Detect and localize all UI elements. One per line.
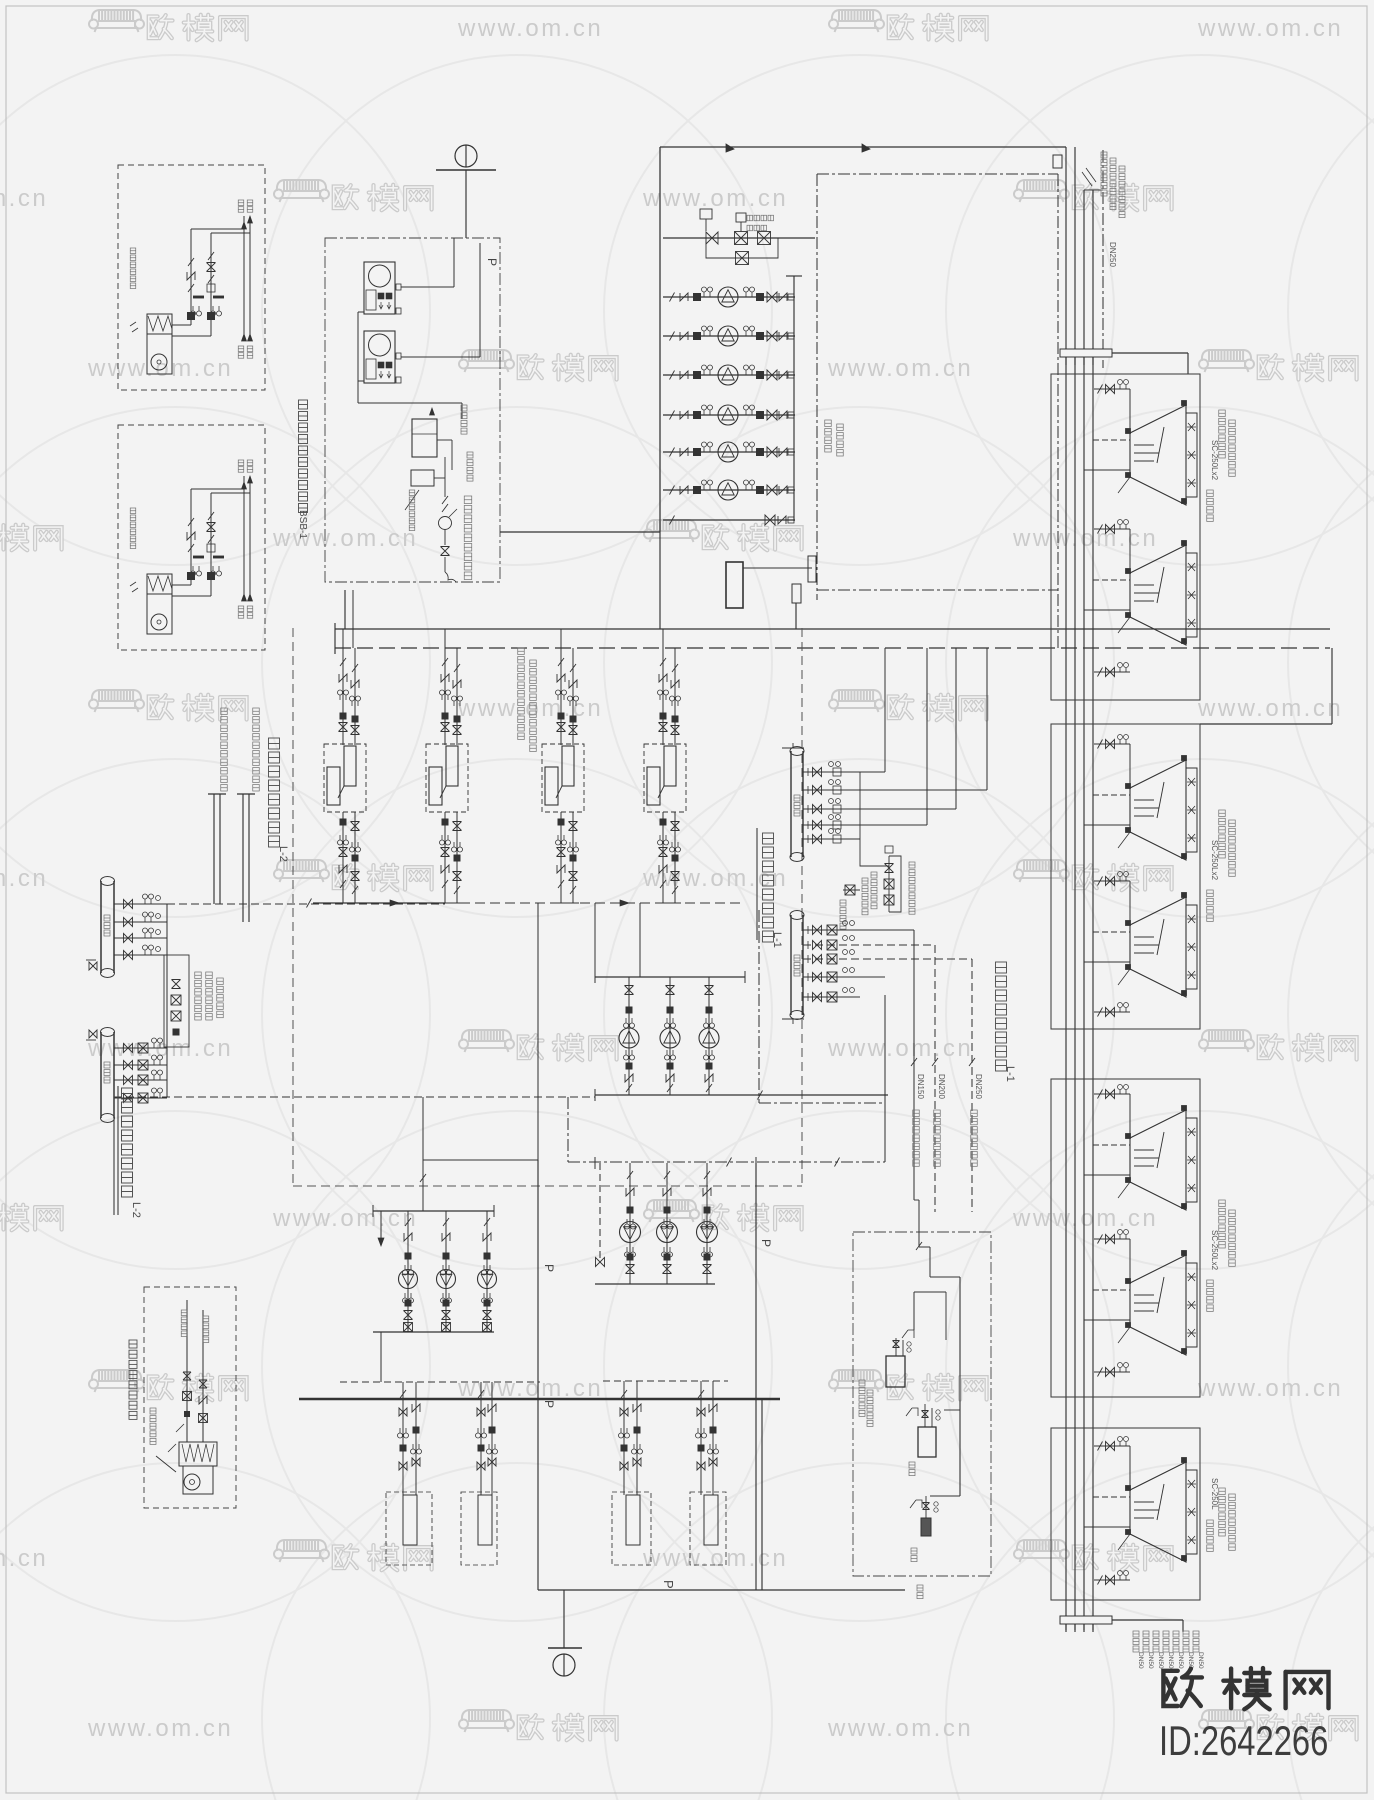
check valve <box>569 680 577 688</box>
label <box>238 606 244 618</box>
boxed valve <box>138 1060 148 1070</box>
riser 4 <box>1092 190 1094 1630</box>
hx lower pipe <box>444 812 446 903</box>
damper <box>130 582 138 592</box>
label <box>221 708 228 791</box>
valve <box>453 726 462 735</box>
cooling tower 2A <box>1130 760 1186 860</box>
svg-text:SC-250L: SC-250L <box>1210 1478 1219 1510</box>
branch <box>803 789 987 791</box>
branch <box>803 838 860 840</box>
riser dashed box <box>461 1492 497 1565</box>
break <box>478 1390 484 1398</box>
branch <box>114 921 167 923</box>
stub <box>1093 1496 1130 1498</box>
branch <box>803 944 935 946</box>
pipe down dashed <box>934 945 936 1212</box>
valve <box>596 1258 605 1267</box>
sensor pair <box>662 1219 673 1229</box>
label <box>1229 820 1236 876</box>
svg-text:P: P <box>759 1239 773 1247</box>
pipe <box>313 902 445 904</box>
sensor pair <box>702 287 713 297</box>
filter <box>710 1427 716 1433</box>
break <box>208 535 214 543</box>
check valve <box>666 1074 674 1082</box>
label <box>1163 1631 1169 1652</box>
makeup tank 2 <box>918 1427 936 1457</box>
check valve <box>709 1404 717 1412</box>
valve <box>569 726 578 735</box>
discharge header <box>595 1283 715 1285</box>
riser <box>243 476 245 600</box>
break <box>1098 740 1103 749</box>
pipe <box>594 903 596 977</box>
sensor pair <box>350 842 361 852</box>
pipe to ground <box>563 1590 565 1648</box>
cooling tower 3A <box>1130 1110 1186 1210</box>
chilled pump <box>699 1028 719 1048</box>
sensor pair <box>452 842 463 852</box>
break <box>484 1218 490 1226</box>
valve <box>626 1265 635 1274</box>
check valve <box>404 1233 412 1241</box>
flow arrow <box>390 900 399 906</box>
filter <box>698 1445 704 1451</box>
sensor pair <box>441 1293 452 1303</box>
pipe <box>190 229 192 325</box>
dash-dot box F <box>853 1232 991 1576</box>
break <box>558 880 564 888</box>
boxed valve <box>827 940 837 950</box>
filter <box>694 412 701 419</box>
valve <box>488 1458 496 1466</box>
sensor pair <box>403 1293 414 1303</box>
label <box>871 872 877 909</box>
flow arrow <box>862 144 870 152</box>
break <box>758 1091 763 1100</box>
label 集水器 <box>794 955 800 976</box>
inner module <box>366 359 376 379</box>
svg-text:www.om.cn: www.om.cn <box>827 1035 973 1062</box>
check valve <box>779 332 787 340</box>
riser 2 <box>1074 147 1076 1630</box>
break <box>969 1058 975 1066</box>
boxed valve <box>827 972 837 982</box>
valve <box>813 941 822 950</box>
sensor pair <box>702 1219 713 1229</box>
fan strip <box>1186 1118 1197 1202</box>
pipe boxC to boxD <box>500 531 660 533</box>
discharge header <box>595 1094 888 1096</box>
collector H2 <box>100 1032 102 1118</box>
valve <box>351 872 360 881</box>
arrow <box>242 222 247 229</box>
sensor pair <box>411 1444 422 1454</box>
discharge header <box>373 1331 494 1333</box>
heat exchanger head <box>344 746 356 786</box>
pipe down <box>700 1381 702 1495</box>
main vertical pipe <box>537 1160 539 1590</box>
label 20X250 <box>518 648 525 740</box>
pipe up <box>884 648 886 772</box>
boxed valve <box>138 1075 148 1085</box>
sensor pair <box>744 480 755 490</box>
label <box>217 978 224 1018</box>
label <box>247 200 253 212</box>
pipe down <box>352 590 354 648</box>
valve <box>813 786 822 795</box>
valve <box>671 872 680 881</box>
box D left edge <box>659 147 661 532</box>
label 自动二通阀 <box>747 215 774 221</box>
break <box>664 1171 670 1179</box>
flex hose <box>445 572 456 582</box>
pipe down <box>636 1381 638 1495</box>
pipe <box>190 489 192 585</box>
pipe down <box>761 1399 763 1590</box>
filter <box>660 819 666 825</box>
dash-dot boundary <box>817 173 1058 175</box>
sensor pair <box>440 835 451 845</box>
label <box>206 972 213 1020</box>
label low zone L-1 right <box>996 962 1007 1071</box>
pipe <box>914 1291 946 1293</box>
pipe <box>663 237 815 239</box>
bypass pipe <box>706 238 778 258</box>
valve <box>620 1462 628 1470</box>
arrow <box>242 482 247 489</box>
filter bar <box>213 556 224 559</box>
label <box>911 1548 917 1562</box>
break <box>1098 1008 1103 1017</box>
valve <box>557 723 566 732</box>
suction header <box>595 976 745 978</box>
valve <box>441 848 450 857</box>
hx dashed box <box>426 744 468 812</box>
check valve <box>680 448 688 456</box>
label <box>1219 1488 1226 1536</box>
sensor pair <box>556 835 567 845</box>
check valve <box>557 674 565 682</box>
break <box>558 658 564 666</box>
pipe <box>210 233 212 336</box>
pump group G-D <box>594 1157 596 1169</box>
sensor pair <box>441 1265 452 1275</box>
pipe <box>929 1247 931 1277</box>
filter <box>757 333 764 340</box>
label <box>530 660 537 752</box>
hx lower pipe <box>560 812 562 903</box>
label 集水器 <box>104 1062 110 1083</box>
valve <box>1106 385 1115 394</box>
pipe <box>401 286 454 288</box>
break <box>1098 1442 1103 1451</box>
filter <box>352 716 358 722</box>
valve <box>441 723 450 732</box>
svg-text:BSB-1: BSB-1 <box>297 510 308 539</box>
label <box>1110 158 1116 210</box>
sensor pair <box>211 566 222 576</box>
valve <box>199 1380 207 1388</box>
check valve <box>703 1188 711 1196</box>
sensor pair <box>658 690 669 700</box>
pipe <box>401 356 480 358</box>
filter <box>352 855 358 861</box>
check valve <box>705 1074 713 1082</box>
svg-text:www.om.cn: www.om.cn <box>87 355 233 382</box>
svg-text:www.om.cn: www.om.cn <box>642 1545 788 1572</box>
valve <box>569 822 578 831</box>
valve <box>453 872 462 881</box>
sensor pair <box>487 1444 498 1454</box>
pipe <box>1094 388 1130 390</box>
break <box>208 252 214 260</box>
stub <box>1084 1319 1130 1321</box>
low zone collector S2 <box>790 915 792 1015</box>
filter <box>386 293 392 299</box>
fan <box>1187 971 1196 979</box>
valve <box>1106 740 1115 749</box>
fan <box>1187 1156 1196 1164</box>
dash-dot pipe vert <box>758 910 760 1103</box>
break <box>188 518 194 526</box>
break <box>1098 668 1103 677</box>
svg-text:DN50: DN50 <box>1167 1652 1174 1669</box>
sensor pair <box>556 690 567 700</box>
tower box 1 <box>1051 374 1200 700</box>
sensor pair <box>632 1444 643 1454</box>
header return dashed <box>335 647 1330 649</box>
label <box>238 346 244 358</box>
damper <box>130 322 138 332</box>
P riser inside <box>479 243 481 357</box>
filter <box>694 449 701 456</box>
stub <box>1093 439 1130 441</box>
cluster below tower 4A <box>1094 1579 1130 1581</box>
valve <box>922 1411 929 1418</box>
filter <box>757 372 764 379</box>
valve <box>183 1372 191 1380</box>
svg-text:DN250: DN250 <box>974 1074 983 1099</box>
break <box>454 886 460 894</box>
pipe <box>423 1159 538 1161</box>
valve <box>893 1341 900 1348</box>
filter <box>208 313 215 320</box>
valve <box>124 1061 133 1070</box>
fan <box>1187 1301 1196 1309</box>
tower box 2 <box>1051 724 1200 1029</box>
high zone riser pair 2 <box>242 794 244 922</box>
branch <box>803 929 914 931</box>
filter <box>667 1007 673 1013</box>
break <box>626 1084 632 1092</box>
dashed return header <box>114 1096 595 1098</box>
sensor pair <box>744 365 755 375</box>
sensor pair <box>452 696 463 706</box>
valve <box>625 986 634 995</box>
label 分水器 <box>104 915 110 936</box>
svg-text:DN50: DN50 <box>1197 1652 1204 1669</box>
label <box>1229 420 1236 476</box>
valve <box>671 726 680 735</box>
secondary pump <box>399 1270 418 1289</box>
filter bar <box>213 296 224 299</box>
filter <box>378 293 384 299</box>
branch <box>114 1079 167 1081</box>
check valve <box>659 865 667 873</box>
pipe down <box>623 1381 625 1495</box>
valve <box>124 918 133 927</box>
stub <box>1093 1144 1130 1146</box>
check valve <box>779 293 787 301</box>
fan <box>1187 619 1196 627</box>
tower box 4 <box>1051 1428 1200 1600</box>
cooling tower 4A <box>1130 1462 1186 1562</box>
dashed boundary right <box>801 628 803 1186</box>
label <box>1153 1631 1159 1652</box>
label <box>203 1316 209 1343</box>
box D edge to header <box>659 532 661 629</box>
break <box>916 1242 922 1250</box>
svg-text:www.om.cn: www.om.cn <box>642 865 788 892</box>
filter <box>188 313 195 320</box>
branch <box>803 824 927 826</box>
small vessel <box>792 584 801 603</box>
check valve <box>778 516 786 524</box>
stub <box>1084 824 1130 826</box>
check valve <box>680 293 688 301</box>
filter <box>757 412 764 419</box>
sensor pair <box>143 928 154 938</box>
svg-text:www.om.cn: www.om.cn <box>827 355 973 382</box>
check valve <box>187 532 195 540</box>
riser dashed box <box>612 1492 651 1565</box>
valve <box>703 1265 712 1274</box>
svg-text:DN50: DN50 <box>1147 1652 1154 1669</box>
pump circle <box>369 334 391 356</box>
bar <box>436 169 496 171</box>
filter <box>405 1300 411 1306</box>
break <box>706 1084 712 1092</box>
svg-text:SC-250Lx2: SC-250Lx2 <box>1210 440 1219 481</box>
valve <box>697 1408 705 1416</box>
label high zone L-2 <box>113 1086 115 1215</box>
label BSB-1 <box>299 400 308 513</box>
valve <box>813 805 822 814</box>
valve <box>124 1076 133 1085</box>
break <box>352 886 358 894</box>
label <box>238 200 244 212</box>
break <box>340 880 346 888</box>
break <box>670 486 675 495</box>
riser 3 <box>1083 190 1085 1630</box>
valve <box>557 848 566 857</box>
label <box>747 225 767 231</box>
sensor pair <box>568 696 579 706</box>
break <box>340 658 346 666</box>
dash-dot boundary bottom <box>817 589 1058 591</box>
cooling pump <box>718 442 738 462</box>
tower box 3 <box>1051 1079 1200 1397</box>
chilled pump <box>660 1028 680 1048</box>
vacuum degasser unit1 <box>364 262 395 314</box>
check valve <box>199 1396 207 1404</box>
break <box>627 1171 633 1179</box>
hx lower pipe <box>342 812 344 903</box>
pipe down <box>402 1382 404 1495</box>
label <box>1193 1631 1199 1652</box>
filter <box>664 1254 670 1260</box>
sensor pair <box>482 1293 493 1303</box>
svg-text:www.om.cn: www.om.cn <box>642 185 788 212</box>
pump circle <box>369 265 391 287</box>
cluster below tower 1B <box>1094 671 1130 673</box>
filter <box>706 1063 712 1069</box>
distributor H1 <box>100 881 102 973</box>
filter <box>558 819 564 825</box>
dashed pipe <box>340 1381 540 1383</box>
sensor pair <box>744 326 755 336</box>
valve <box>885 864 894 873</box>
dash-dot boundary <box>1057 174 1059 649</box>
arrow <box>248 334 253 341</box>
filter <box>634 1427 640 1433</box>
dashed box E <box>144 1287 236 1508</box>
filter <box>188 573 195 580</box>
sensor pair <box>744 287 755 297</box>
break <box>1098 525 1103 534</box>
check valve <box>488 1404 496 1412</box>
valve <box>569 872 578 881</box>
fan <box>1187 1273 1196 1281</box>
fan <box>151 614 167 630</box>
water meter <box>439 517 452 530</box>
sensor pair <box>338 690 349 700</box>
filter <box>489 1427 495 1433</box>
pump string <box>669 977 671 1095</box>
break <box>835 1158 840 1167</box>
svg-text:www.om.cn: www.om.cn <box>272 525 418 552</box>
fan strip <box>1186 1263 1197 1347</box>
filter <box>443 1300 449 1306</box>
hx branch pipe <box>354 648 356 745</box>
filter <box>340 713 346 719</box>
arrow <box>248 216 253 223</box>
coil zigzag <box>148 316 172 331</box>
pump branch pipe <box>663 489 795 491</box>
label 定压信号 <box>461 405 467 434</box>
filter <box>706 1007 712 1013</box>
branch <box>803 771 885 773</box>
valve <box>813 955 822 964</box>
filter <box>667 1063 673 1069</box>
label <box>1207 1520 1214 1551</box>
valve <box>124 934 133 943</box>
break <box>1098 1368 1103 1377</box>
drain valve <box>89 1030 97 1038</box>
valve <box>351 726 360 735</box>
label vert <box>130 508 136 549</box>
fan <box>1187 915 1196 923</box>
bypass pipe <box>860 772 889 866</box>
fan strip <box>1186 553 1197 637</box>
label <box>150 1408 156 1444</box>
svg-text:P: P <box>661 1580 676 1589</box>
main vertical pipe <box>755 1163 757 1590</box>
label low zone L-1 <box>756 828 758 940</box>
chem tank <box>726 562 743 608</box>
